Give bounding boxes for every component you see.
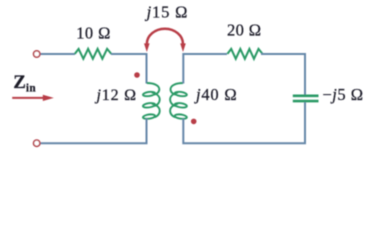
svg-text:Zin: Zin	[13, 72, 36, 94]
wire: secondary coil top corner to 20-ohm resistor	[183, 54, 227, 84]
terminal top-left (open circle)	[34, 51, 40, 57]
dot marker on secondary coil (bottom)	[191, 119, 197, 125]
arrowhead right of coupling arc	[180, 43, 186, 52]
svg-text:j12 Ω: j12 Ω	[95, 87, 137, 104]
arrowhead left of coupling arc	[144, 43, 150, 52]
svg-text:j15 Ω: j15 Ω	[145, 2, 188, 21]
inductor L1 j12 ohm (primary coil)	[143, 83, 160, 119]
svg-text:−j5 Ω: −j5 Ω	[322, 85, 363, 104]
resistor R 10ohm	[75, 49, 112, 59]
inductor L2 j40 ohm (secondary coil)	[170, 83, 187, 119]
dot marker on primary coil (top)	[134, 72, 140, 78]
wire: 20-ohm to top-right corner down to capacitor	[261, 54, 305, 95]
arrow for Z_in (points right)	[12, 97, 43, 99]
svg-text:20 Ω: 20 Ω	[227, 21, 262, 40]
capacitor C -j5 ohm	[293, 95, 319, 98]
svg-text:j40 Ω: j40 Ω	[194, 85, 237, 104]
wire: capacitor bottom to secondary coil bottom	[183, 102, 305, 143]
mutual coupling arc j15 ohm	[147, 29, 183, 44]
terminal bottom-left (open circle)	[34, 140, 40, 146]
resistor R 20ohm	[227, 49, 262, 59]
wire: resistor to primary coil top corner, down to coil	[111, 54, 147, 84]
wire: top-left from terminal to 10-ohm resistor	[40, 53, 75, 55]
wire: primary coil bottom to bottom-left terminal	[40, 119, 147, 144]
svg-text:10 Ω: 10 Ω	[76, 24, 111, 43]
